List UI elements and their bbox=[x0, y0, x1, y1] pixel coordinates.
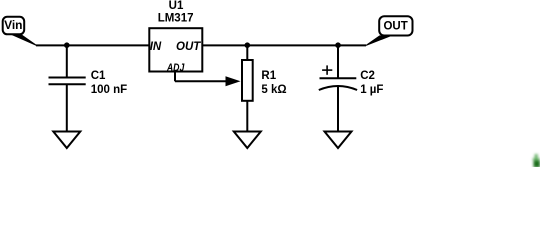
ground bbox=[234, 132, 261, 149]
net flag Vin bbox=[3, 17, 37, 46]
svg-text:5 kΩ: 5 kΩ bbox=[261, 84, 286, 96]
svg-text:C1: C1 bbox=[91, 70, 106, 82]
svg-text:OUT: OUT bbox=[383, 20, 407, 32]
svg-text:C2: C2 bbox=[360, 70, 375, 82]
ground bbox=[325, 132, 352, 149]
wire bbox=[66, 84, 68, 131]
svg-text:100 nF: 100 nF bbox=[91, 84, 127, 96]
plus sign bbox=[322, 69, 332, 71]
net flag OUT bbox=[366, 16, 413, 45]
svg-text:U1: U1 bbox=[169, 0, 184, 12]
wire bbox=[337, 86, 339, 132]
wire bbox=[246, 45, 248, 60]
wire bbox=[66, 45, 68, 77]
svg-text:R1: R1 bbox=[261, 70, 276, 82]
node input junction bbox=[64, 42, 70, 48]
capacitor C2 (polarized) bbox=[319, 45, 384, 131]
wiper arrow bbox=[226, 76, 241, 86]
svg-text:1 µF: 1 µF bbox=[360, 84, 383, 96]
wire output rail bbox=[202, 44, 366, 46]
svg-text:Vin: Vin bbox=[4, 18, 22, 32]
watermark bbox=[533, 154, 540, 168]
svg-text:OUT: OUT bbox=[176, 41, 201, 53]
wire ADJ to wiper bbox=[175, 72, 241, 87]
ground bbox=[53, 132, 80, 149]
resistor R1 (pot) bbox=[242, 45, 287, 131]
node C2 junction bbox=[335, 42, 341, 48]
wire bbox=[337, 45, 339, 78]
node R1 junction bbox=[245, 42, 251, 48]
wire bbox=[246, 101, 248, 132]
svg-text:IN: IN bbox=[150, 41, 162, 53]
capacitor C1 bbox=[49, 45, 128, 131]
svg-text:LM317: LM317 bbox=[158, 13, 194, 25]
regulator U1 LM317 bbox=[149, 0, 202, 74]
curved plate bbox=[319, 86, 357, 90]
wire input rail bbox=[36, 44, 150, 46]
